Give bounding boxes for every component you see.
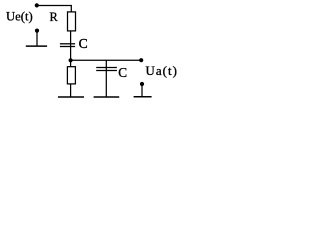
node A junction dot <box>69 58 73 62</box>
svg-text:Ua(t): Ua(t) <box>146 64 178 78</box>
capacitor C1 top plate <box>60 43 75 45</box>
wire Ue- terminal to ground <box>36 31 38 46</box>
ground under Ua <box>134 96 152 98</box>
resistor R <box>68 12 76 31</box>
svg-text:C: C <box>79 36 88 51</box>
capacitor C2 bottom plate <box>96 70 117 72</box>
node Ua- terminal dot <box>140 82 144 86</box>
wire capacitor C2 lead through plates to ground <box>105 60 107 97</box>
wire node A to output node <box>71 59 142 61</box>
ground under C2 <box>94 96 120 98</box>
capacitor C2 top plate <box>96 67 117 69</box>
node Ua+ output terminal dot <box>139 58 143 62</box>
wire resistor R2 bottom to ground <box>70 84 72 98</box>
svg-text:R: R <box>50 10 59 24</box>
wire node A into resistor R2 <box>70 60 72 66</box>
node Ue+ terminal dot <box>35 3 39 7</box>
ground under Ue <box>26 45 47 47</box>
node Ue- terminal dot <box>35 29 39 33</box>
wire resistor bottom through capacitor C1 to node A <box>70 31 72 60</box>
ground under R2 <box>58 96 84 98</box>
svg-text:C: C <box>118 65 127 80</box>
wire top from Ue+ to resistor R <box>37 5 72 12</box>
wire Ua- terminal to ground <box>141 84 143 97</box>
resistor R2 (shunt) <box>67 67 75 84</box>
capacitor C1 bottom plate <box>60 46 75 48</box>
svg-text:Ue(t): Ue(t) <box>6 10 33 24</box>
